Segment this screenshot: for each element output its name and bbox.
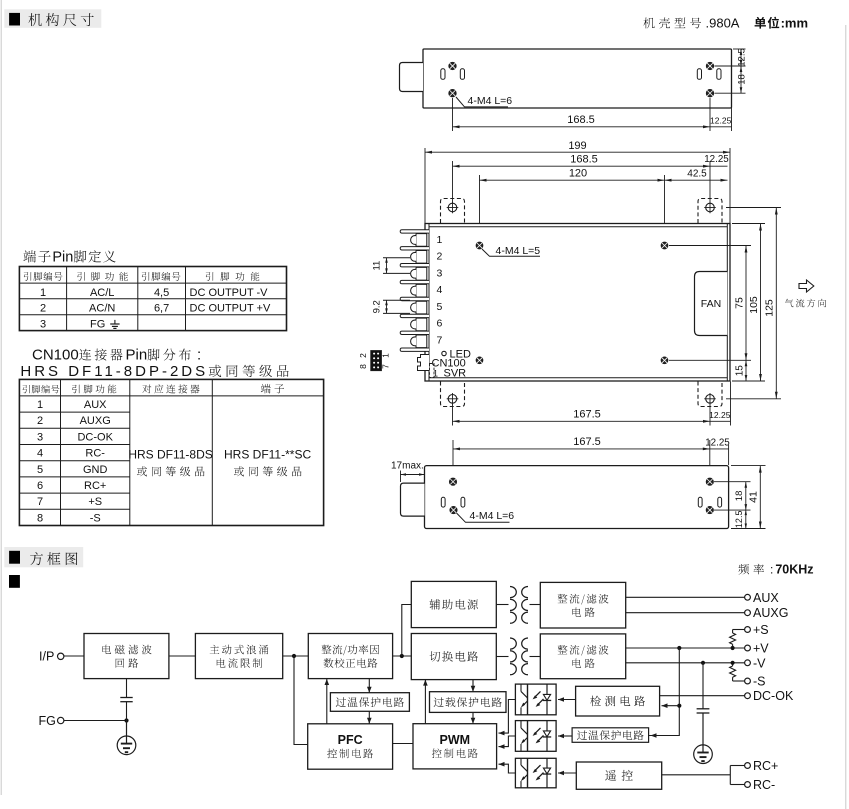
svg-text:4,5: 4,5	[154, 287, 169, 299]
table1 header 引脚编号(1)	[24, 272, 63, 281]
block PFC控制电路	[308, 724, 393, 769]
svg-text:17max.: 17max.	[391, 461, 424, 472]
table2 row5 pin 5 GND	[37, 464, 108, 476]
svg-text:42.5: 42.5	[687, 169, 707, 180]
table1 header 引脚功能(2)	[206, 272, 260, 281]
transformer T1 primary winding	[510, 587, 516, 624]
svg-text:HRS DF11-**SC: HRS DF11-**SC	[224, 448, 311, 462]
svg-text:12.5: 12.5	[734, 511, 744, 529]
svg-text:HRS DF11-8DS: HRS DF11-8DS	[128, 448, 212, 462]
label 机壳型号.980A	[644, 18, 702, 29]
block 整流/滤波电路 aux	[540, 582, 625, 628]
dim 9.2 screw pitch	[372, 300, 411, 313]
main view hole top-left	[476, 242, 483, 249]
svg-text:+V: +V	[753, 642, 769, 656]
earth ground symbol FG	[117, 736, 136, 755]
main view dim 15	[734, 360, 747, 381]
svg-text:DC-OK: DC-OK	[77, 431, 113, 443]
svg-text:RC+: RC+	[84, 480, 106, 492]
terminal strip separator fins	[400, 230, 429, 352]
svg-text:DC OUTPUT +V: DC OUTPUT +V	[190, 303, 271, 315]
top view screw bottom-left	[449, 90, 456, 97]
svg-text:-S: -S	[90, 512, 101, 524]
CN100 connector icon	[371, 351, 382, 371]
wire FG	[64, 720, 127, 722]
side view slot left 1	[441, 497, 445, 507]
section title text 机构尺寸	[29, 13, 94, 26]
top view dim 168.5	[453, 98, 711, 131]
svg-text:12.25: 12.25	[710, 116, 732, 126]
main view hole bottom-right	[661, 357, 668, 364]
side view slot right 1	[698, 497, 702, 507]
top view slot left 2	[460, 69, 464, 80]
svg-text:2: 2	[40, 303, 46, 315]
node -S/-V	[731, 661, 735, 665]
svg-text:7: 7	[437, 334, 443, 346]
table2 header 端子	[261, 384, 284, 394]
svg-text:12.5: 12.5	[737, 48, 748, 67]
terminal numbers 1-7	[437, 234, 443, 346]
main view dim 42.5	[665, 169, 728, 182]
table1 title 端子Pin脚定义	[23, 250, 50, 262]
main view dim 75	[669, 246, 751, 361]
table1 row1	[40, 287, 268, 299]
main view dim 125	[726, 208, 781, 399]
section title square 方框图	[9, 551, 20, 564]
node detection tap	[677, 704, 681, 708]
svg-text:AC/L: AC/L	[90, 287, 114, 299]
airflow text 气流方向	[785, 299, 826, 308]
main view mounting tab top-left	[441, 199, 465, 224]
table2 row3 pin 3 DC-OK	[37, 431, 114, 443]
CN100 connector profile on chassis edge	[418, 355, 430, 371]
main view dim 12.25 top	[704, 154, 729, 166]
node FG junction	[124, 718, 128, 722]
top view chassis body	[423, 49, 732, 108]
svg-text:8: 8	[358, 364, 368, 369]
svg-text:3: 3	[37, 431, 43, 443]
svg-text:168.5: 168.5	[570, 154, 598, 166]
svg-text:11: 11	[372, 261, 383, 271]
svg-text:2: 2	[437, 251, 443, 263]
block 过载保护电路	[430, 692, 507, 713]
main view chassis inner panel lines	[429, 224, 727, 382]
wire +S with sense resistor	[730, 630, 745, 649]
side view slot right 2	[718, 497, 722, 507]
main view chassis outline	[425, 224, 730, 382]
wire node to aux supply	[402, 605, 412, 657]
main view dim 199	[425, 140, 730, 223]
side view dim 41	[731, 466, 766, 529]
svg-text:PWM: PWM	[440, 733, 471, 747]
table2 cell HRS DF11-8DS 或同等级品	[128, 448, 212, 477]
opto-coupler U1	[515, 684, 556, 715]
transformer T1 secondary winding	[522, 587, 528, 624]
table2 row2 pin 2 AUXG	[37, 415, 111, 427]
main view hole bottom-left	[476, 357, 483, 364]
FAN cutout	[695, 272, 728, 336]
main view dim 167.5 bottom	[453, 404, 711, 426]
svg-text:DC-OK: DC-OK	[753, 689, 794, 703]
opto-coupler U2	[515, 721, 556, 752]
main view dim 168.5	[453, 154, 711, 204]
block 过温保护电路 primary	[330, 693, 409, 712]
svg-text:HRS DF11-8DP-2DS: HRS DF11-8DP-2DS	[20, 363, 208, 380]
svg-text:GND: GND	[83, 464, 108, 476]
capacitor output to earth	[697, 663, 710, 753]
svg-text:4: 4	[37, 448, 43, 460]
svg-text:6,7: 6,7	[154, 303, 169, 315]
wire opto3 to PWM	[499, 762, 516, 773]
terminal +S	[745, 623, 769, 637]
main view mounting tab bottom-right	[698, 382, 722, 407]
terminal AUX	[745, 591, 780, 605]
transformer T2 primary winding	[510, 638, 516, 675]
table1 grid	[19, 267, 286, 331]
top view dim 12.5 right	[715, 48, 748, 67]
svg-text:RC-: RC-	[85, 448, 105, 460]
top view screw top-left	[449, 62, 456, 69]
node +V sense tap	[677, 646, 681, 650]
wire EMI to surge limiter	[169, 655, 195, 657]
top view slot left 1	[441, 69, 445, 80]
svg-text:PFC: PFC	[338, 733, 363, 747]
table1 row3 FG with earth symbol	[40, 318, 120, 330]
terminal DC-OK	[745, 689, 794, 703]
side view screw top-left	[450, 478, 457, 485]
svg-text:RC-: RC-	[753, 778, 775, 792]
block 过温保护电路 secondary	[572, 728, 649, 743]
svg-text:6: 6	[37, 480, 43, 492]
svg-text:125: 125	[764, 299, 776, 317]
block 切换电路	[411, 634, 496, 680]
top view screw bottom-right	[706, 90, 713, 97]
top view dim 12.25	[710, 108, 732, 131]
terminal RC-	[745, 778, 776, 792]
arrow PFC control to rectifier	[325, 679, 330, 724]
top view screw top-right	[706, 62, 713, 69]
airflow arrow	[799, 280, 814, 292]
terminal I/P	[39, 649, 64, 663]
side view label 4-M4 L=6 with leader	[457, 510, 515, 522]
main view dim 12.25 bottom	[709, 382, 731, 426]
svg-text:8: 8	[37, 512, 43, 524]
wire OTP secondary to opto2	[558, 734, 572, 739]
wire -S with sense resistor	[730, 663, 745, 681]
table2 row4 pin 4 RC-	[37, 448, 105, 460]
terminal -V	[745, 656, 767, 670]
section title square	[9, 13, 20, 26]
LED indicator	[442, 349, 471, 361]
wire opto2 to PWM	[499, 736, 516, 749]
terminal screws	[411, 234, 427, 348]
wire DC-OK	[660, 695, 745, 697]
svg-text:1: 1	[40, 287, 46, 299]
label SVR and pin1	[433, 368, 466, 380]
table2 cell HRS DF11-**SC 或同等级品	[224, 448, 311, 477]
wire +V tap down to detection and OTP secondary	[649, 648, 680, 736]
arrow OTP to PFC control	[367, 711, 372, 724]
side view screw bottom-right	[706, 507, 713, 514]
side view label 17max with dim	[391, 461, 425, 482]
section title bar 机构尺寸	[4, 9, 101, 28]
wire surge limiter to PFC node	[283, 655, 309, 657]
CN100 icon pin labels 2 8 1 7	[358, 353, 391, 369]
table2 row7 pin 7 +S	[37, 496, 102, 508]
block 电磁滤波回路	[84, 634, 169, 679]
svg-text:FG: FG	[39, 714, 56, 728]
side view slot left 2	[461, 497, 465, 507]
table1 header 引脚编号(2)	[142, 272, 181, 281]
svg-text:105: 105	[748, 296, 760, 314]
svg-text:2: 2	[358, 353, 368, 358]
svg-text:DC OUTPUT -V: DC OUTPUT -V	[190, 287, 269, 299]
svg-text:75: 75	[733, 297, 745, 309]
svg-text:+S: +S	[88, 496, 102, 508]
svg-text:AUX: AUX	[84, 399, 107, 411]
node +S/+V	[731, 646, 735, 650]
table2 grid	[19, 379, 323, 525]
svg-text:RC+: RC+	[753, 759, 778, 773]
svg-text:3: 3	[437, 267, 443, 279]
svg-text:168.5: 168.5	[567, 114, 595, 126]
svg-text:120: 120	[569, 168, 587, 180]
terminal AUXG	[745, 606, 789, 620]
wire detection to opto1	[558, 697, 576, 702]
svg-text:18: 18	[734, 491, 745, 502]
wire PFC control to PWM control	[393, 743, 413, 745]
table1 header 引脚功能(1)	[77, 272, 128, 281]
table2 row8 pin 8 -S	[37, 512, 101, 524]
svg-text:.980A: .980A	[706, 16, 740, 31]
side view dim 12.5	[734, 510, 747, 528]
arrow switch to overload protection	[471, 680, 476, 692]
terminal RC+	[745, 759, 779, 773]
top view dim 18 right	[715, 66, 748, 93]
svg-text:3: 3	[40, 318, 46, 330]
svg-text:41: 41	[748, 491, 760, 503]
block 遥控	[576, 762, 661, 789]
svg-text:12.25: 12.25	[705, 437, 730, 448]
arrow PWM to switch circuit	[423, 680, 428, 724]
arrow overload protection to PWM	[471, 712, 476, 723]
wire PFC rectifier to switch node	[393, 655, 412, 657]
svg-text:FG: FG	[90, 318, 105, 330]
top view label 4-M4 L=6 with leader	[456, 95, 512, 107]
table2 header 对应连接器	[142, 384, 199, 393]
arrow rectifier to OTP	[367, 679, 372, 693]
dim 11 terminal pitch	[372, 258, 411, 274]
svg-text:AUXG: AUXG	[753, 606, 788, 620]
wire remote to opto3	[558, 771, 576, 776]
svg-text:4-M4 L=6: 4-M4 L=6	[470, 510, 515, 522]
wire remote to RC terminals	[662, 766, 745, 785]
svg-text:1: 1	[37, 399, 43, 411]
block PWM控制电路	[413, 724, 497, 769]
svg-text:Pin: Pin	[125, 347, 147, 364]
svg-text:167.5: 167.5	[573, 409, 601, 421]
svg-text:AUXG: AUXG	[80, 415, 111, 427]
side view screw top-right	[706, 478, 713, 485]
table2 row1 pin 1 AUX	[37, 399, 107, 411]
svg-text:-S: -S	[753, 675, 766, 689]
terminal -S	[745, 675, 766, 689]
wire opto1 to PWM	[499, 700, 516, 736]
svg-text:2: 2	[37, 415, 43, 427]
table1 row2	[40, 303, 271, 315]
svg-text:+S: +S	[753, 623, 769, 637]
terminal FG	[39, 714, 64, 728]
svg-text:6: 6	[437, 318, 443, 330]
section title bar 方框图	[4, 547, 83, 567]
svg-text:15: 15	[734, 365, 745, 377]
svg-text:5: 5	[37, 464, 43, 476]
side view screw bottom-left	[450, 507, 457, 514]
page left border	[0, 0, 2, 795]
top view left tab	[400, 63, 424, 92]
wire +V output	[626, 647, 745, 649]
block 主动式浪涌电流限制	[195, 634, 282, 679]
svg-text:7: 7	[37, 496, 43, 508]
svg-text::: :	[197, 347, 201, 364]
block 辅助电源	[411, 581, 496, 627]
block 整流/滤波电路 main	[540, 634, 625, 679]
node -V cap tap	[701, 661, 705, 665]
svg-text:199: 199	[568, 140, 586, 152]
main view dim 120	[480, 168, 665, 240]
side view dim 167.5	[453, 436, 710, 482]
svg-text:4: 4	[437, 284, 443, 296]
svg-text:SVR: SVR	[444, 368, 467, 380]
terminal +V	[745, 642, 770, 656]
wire AUXG output	[626, 612, 745, 614]
top view slot right 1	[697, 69, 701, 80]
svg-text:12.25: 12.25	[709, 410, 731, 420]
svg-text:AUX: AUX	[753, 591, 779, 605]
side view dim 12.25	[705, 437, 730, 465]
wire aux to transformer T1	[496, 604, 508, 606]
svg-text:7: 7	[381, 364, 391, 369]
main view dim 105	[732, 224, 765, 382]
CN100 dashed position mark	[430, 364, 435, 378]
arrow into detection circuit	[662, 703, 680, 708]
svg-text:12.25: 12.25	[704, 154, 729, 165]
block 整流/功率因数校正电路	[308, 634, 392, 679]
capacitor Y-cap EMI to FG	[120, 679, 132, 721]
table2 header 引脚编号	[23, 385, 60, 394]
wire AUX output	[626, 596, 745, 598]
wire T2 to output rectifier	[530, 656, 541, 658]
svg-text:CN100: CN100	[32, 347, 79, 364]
svg-text:I/P: I/P	[39, 649, 54, 663]
wire I/P to EMI filter	[64, 655, 84, 657]
main view mounting tab top-right	[698, 199, 722, 224]
svg-text::: :	[770, 563, 773, 577]
side view left tab	[401, 483, 425, 516]
wire node to PFC control	[294, 656, 308, 745]
svg-text:167.5: 167.5	[573, 436, 601, 448]
node after surge limiter	[292, 654, 296, 658]
svg-text:9.2: 9.2	[372, 300, 383, 313]
side view dim 18	[714, 482, 751, 510]
main view hole top-right	[661, 242, 668, 249]
node before switch circuit	[400, 654, 404, 658]
svg-text:-V: -V	[753, 656, 766, 670]
section title text 方框图	[30, 552, 77, 565]
main view mounting tab bottom-left	[441, 382, 465, 407]
svg-text:70KHz: 70KHz	[775, 563, 813, 577]
svg-text:5: 5	[437, 301, 443, 313]
wire -V output	[626, 662, 745, 664]
wire FG to earth	[126, 721, 128, 744]
svg-text:1: 1	[381, 353, 391, 358]
page right border	[845, 25, 847, 809]
label 单位:mm	[755, 17, 780, 29]
earth ground symbol output	[694, 745, 713, 764]
svg-text::mm: :mm	[781, 16, 808, 31]
main view label 4-M4 L=5 with leader	[482, 245, 540, 257]
label 频率:70KHz	[738, 564, 764, 575]
svg-text:4-M4 L=6: 4-M4 L=6	[468, 95, 513, 107]
opto-coupler U3	[515, 758, 556, 788]
svg-text:Pin: Pin	[52, 250, 73, 266]
stray black square	[9, 575, 20, 588]
top view slot right 2	[717, 69, 721, 80]
svg-text:AC/N: AC/N	[89, 303, 115, 315]
svg-text:FAN: FAN	[701, 298, 721, 310]
wire switch to transformer T2	[496, 656, 508, 658]
transformer T2 secondary winding	[522, 638, 528, 675]
side view body	[425, 466, 729, 529]
table2 row6 pin 6 RC+	[37, 480, 106, 492]
svg-text:1: 1	[437, 234, 443, 246]
wire T1 to aux rectifier	[530, 604, 541, 606]
table2 header 引脚功能	[72, 385, 116, 394]
block 检测电路	[576, 686, 660, 716]
svg-text:18: 18	[737, 74, 748, 85]
svg-text:4-M4 L=5: 4-M4 L=5	[496, 245, 541, 257]
